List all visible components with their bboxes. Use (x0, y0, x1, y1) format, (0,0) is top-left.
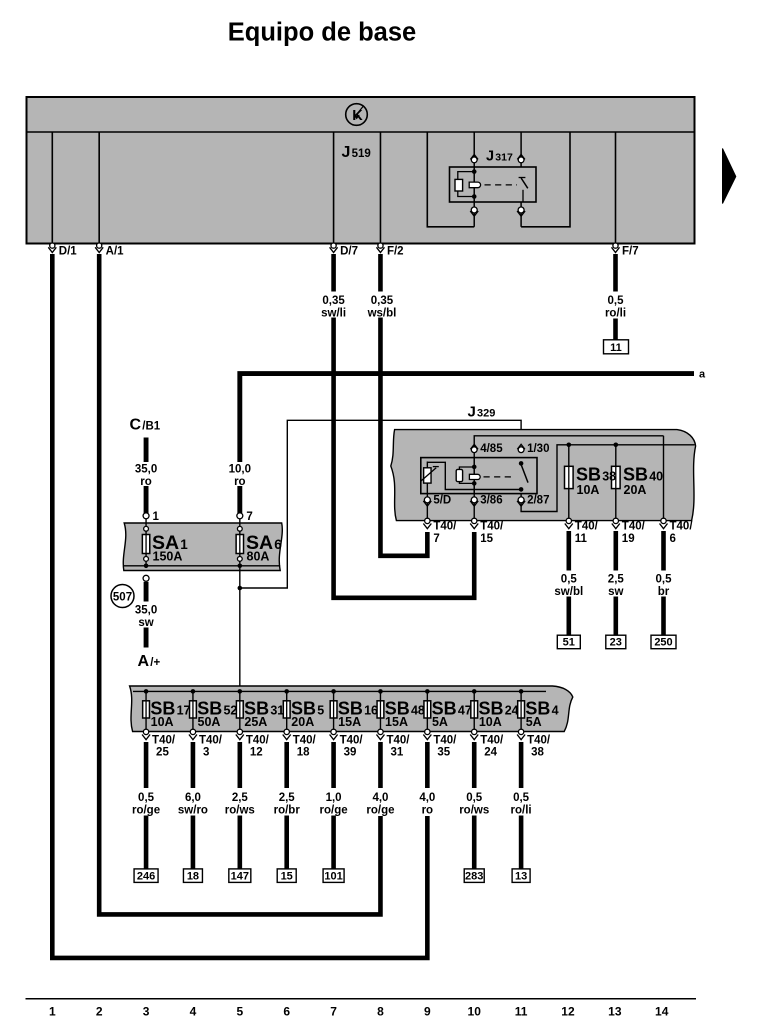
svg-text:15: 15 (480, 533, 493, 545)
svg-text:38: 38 (531, 746, 544, 758)
wire T40/11 lower (566, 597, 571, 636)
terminal arrow T40/19 (613, 518, 618, 523)
wire T40/12 lower (238, 816, 243, 870)
svg-text:0,5: 0,5 (561, 574, 578, 586)
svg-text:2: 2 (96, 1005, 103, 1019)
fuse strip SA box (123, 523, 282, 571)
svg-text:0,35: 0,35 (371, 295, 394, 307)
svg-text:T40/: T40/ (527, 734, 551, 746)
node SB38 tap (567, 443, 572, 448)
J317 outer wiring loop (427, 132, 474, 227)
wire F/2 to T40/7 (380, 318, 427, 556)
svg-text:1: 1 (49, 1005, 56, 1019)
label 507 (circled) (111, 585, 134, 608)
wire A/1 inside box (98, 132, 100, 244)
svg-text:10A: 10A (151, 715, 174, 729)
svg-text:51: 51 (563, 637, 575, 649)
terminal arrow T40/11 (566, 518, 571, 523)
svg-text:T40/: T40/ (480, 521, 504, 533)
wire T40/25 lower (144, 816, 149, 870)
svg-text:T40/: T40/ (386, 734, 410, 746)
fuse SB40 (615, 445, 617, 521)
svg-text:15A: 15A (385, 715, 408, 729)
terminal arrow T40/24 (472, 729, 477, 734)
svg-text:1,0: 1,0 (326, 792, 342, 804)
fuse SB24 (472, 689, 477, 694)
page continuation arrow (723, 149, 736, 204)
J329 terminal 4/85 (471, 447, 477, 453)
svg-text:sw: sw (608, 586, 623, 598)
svg-text:2,5: 2,5 (279, 792, 296, 804)
wire T40/6 upper (661, 531, 666, 571)
terminal arrow T40/6 (661, 518, 666, 523)
svg-text:T40/: T40/ (433, 521, 457, 533)
wire A/+ upper (144, 582, 149, 602)
svg-text:A/1: A/1 (106, 246, 125, 258)
connection box 101 (323, 869, 344, 883)
svg-text:T40/: T40/ (433, 734, 457, 746)
J317 relay box (450, 167, 537, 202)
J329 terminal 3/86 (471, 497, 477, 503)
svg-text:507: 507 (113, 591, 132, 603)
fuse SB38 (568, 445, 570, 521)
connection box 15 (277, 869, 296, 883)
svg-text:19: 19 (622, 533, 635, 545)
connection box 250 (651, 635, 676, 649)
wire A/1 to T40/31 loop (99, 254, 380, 914)
terminal arrow T40/18 (284, 729, 289, 734)
svg-text:F/7: F/7 (622, 246, 639, 258)
wire T40/39 lower (331, 816, 336, 870)
J329 30-rail with fuse taps (521, 445, 694, 512)
terminal arrow A/1 (97, 243, 102, 248)
J317 terminal bottom left (471, 207, 477, 213)
svg-text:0,5: 0,5 (513, 792, 530, 804)
wire 5/D through strip (426, 494, 428, 521)
wire T40/38 upper (519, 742, 524, 788)
svg-text:12: 12 (250, 746, 263, 758)
svg-text:13: 13 (515, 870, 527, 882)
svg-text:a: a (699, 369, 706, 381)
terminal arrow T40/39 (331, 729, 336, 734)
svg-text:31: 31 (390, 746, 403, 758)
svg-text:ro: ro (422, 804, 434, 816)
wire T40/24 upper (472, 742, 477, 788)
wire SA6 to J329 terminal 1/30 (240, 420, 521, 588)
svg-text:25: 25 (156, 746, 169, 758)
svg-text:35,0: 35,0 (135, 605, 157, 617)
svg-text:6: 6 (670, 533, 676, 545)
svg-text:246: 246 (137, 870, 155, 882)
svg-text:7: 7 (433, 533, 439, 545)
wire F/7 inside box (615, 132, 617, 244)
J317 switch (519, 177, 526, 179)
wire T40/35 upper (425, 742, 430, 788)
svg-text:T40/: T40/ (293, 734, 317, 746)
svg-text:283: 283 (465, 870, 483, 882)
wire T40/18 upper (284, 742, 289, 788)
J329 coil winding (459, 467, 474, 469)
fuse SB52 (191, 689, 196, 694)
svg-text:35,0: 35,0 (135, 464, 157, 476)
connection box 246 (134, 869, 158, 883)
svg-text:3: 3 (203, 746, 209, 758)
svg-text:11: 11 (575, 533, 588, 545)
wire D/7 to T40/15 (334, 318, 475, 598)
current track scale line (26, 998, 697, 1000)
svg-text:T40/: T40/ (575, 521, 599, 533)
svg-text:2,5: 2,5 (608, 574, 625, 586)
symbol K (circled) (346, 104, 368, 126)
J329 feed line 4/85 rail (474, 436, 663, 458)
fuse strip SB box (130, 686, 573, 732)
J317 dashed actuator line (485, 184, 518, 186)
fuse SA6 (239, 519, 241, 564)
terminal arrow T40/25 (143, 729, 148, 734)
svg-text:18: 18 (297, 746, 310, 758)
svg-text:1: 1 (153, 511, 160, 523)
svg-text:1/30: 1/30 (527, 443, 549, 455)
svg-text:ro/ge: ro/ge (320, 804, 348, 816)
svg-text:39: 39 (344, 746, 357, 758)
terminal arrow D/1 (50, 243, 55, 248)
wire F/7 upper (613, 254, 618, 292)
fuse SB48 (378, 689, 383, 694)
svg-text:10A: 10A (479, 715, 502, 729)
svg-text:T40/: T40/ (246, 734, 270, 746)
svg-text:ro/ws: ro/ws (459, 804, 489, 816)
svg-text:11: 11 (610, 342, 622, 354)
J329 coil vertical (473, 458, 475, 494)
svg-text:D/1: D/1 (59, 246, 78, 258)
svg-text:10A: 10A (577, 483, 600, 497)
svg-text:sw/ro: sw/ro (178, 804, 208, 816)
svg-text:147: 147 (231, 870, 249, 882)
terminal arrow T40/35 (425, 729, 430, 734)
connection box 11 (604, 340, 629, 354)
connection box 23 (606, 635, 626, 649)
J329 switch (519, 461, 524, 466)
fuse SB16 (331, 689, 336, 694)
J329 terminal 2/87 (518, 497, 524, 503)
svg-text:12: 12 (561, 1005, 575, 1019)
wire A/+ lower (144, 628, 149, 648)
svg-text:ro/ws: ro/ws (225, 804, 255, 816)
svg-text:5/D: 5/D (433, 495, 451, 507)
terminal arrow T40/31 (378, 729, 383, 734)
svg-text:14: 14 (655, 1005, 669, 1019)
fuse SB47 (425, 689, 430, 694)
SA bus bar (124, 565, 280, 567)
svg-text:T40/: T40/ (340, 734, 364, 746)
svg-text:35: 35 (437, 746, 450, 758)
J329 dashed actuator line (484, 476, 516, 478)
svg-text:4,0: 4,0 (419, 792, 435, 804)
wire T40/19 upper (613, 531, 618, 571)
J329 armature plug (469, 474, 480, 479)
svg-text:250: 250 (654, 637, 672, 649)
svg-text:6,0: 6,0 (185, 792, 201, 804)
wire rail a (240, 374, 694, 462)
wire D/7 inside box (333, 132, 335, 244)
wire T40/31 upper (378, 742, 383, 788)
svg-text:50A: 50A (198, 715, 221, 729)
svg-text:0,5: 0,5 (466, 792, 483, 804)
svg-text:0,5: 0,5 (656, 574, 673, 586)
svg-text:T40/: T40/ (152, 734, 176, 746)
wire SA6 output to SB strip (239, 568, 241, 691)
terminal arrow T40/3 (190, 729, 195, 734)
svg-text:ro/ge: ro/ge (366, 804, 394, 816)
wire C upper (144, 438, 149, 463)
terminal 7 of SA6 (237, 513, 243, 519)
J329 terminal 1/30 (518, 447, 524, 453)
terminal arrow T40/38 (518, 729, 523, 734)
wire D/7 upper (331, 254, 336, 292)
svg-text:18: 18 (187, 870, 199, 882)
fuse SB31 (238, 689, 243, 694)
svg-text:5: 5 (236, 1005, 243, 1019)
svg-text:25A: 25A (244, 715, 267, 729)
terminal arrow T40/12 (237, 729, 242, 734)
svg-text:3/86: 3/86 (480, 495, 502, 507)
svg-text:11: 11 (515, 1005, 528, 1019)
terminal arrow F/7 (613, 243, 618, 248)
wire T40/18 lower (284, 816, 289, 870)
wire T40/3 lower (191, 816, 196, 870)
svg-text:sw/bl: sw/bl (554, 586, 583, 598)
connection box 283 (464, 869, 484, 883)
wire T40/6 through strip (663, 436, 665, 521)
J317 terminal top left (471, 157, 477, 163)
terminal arrow F/2 (378, 243, 383, 248)
fuse SB4 (519, 689, 524, 694)
wire T40/3 upper (191, 742, 196, 788)
node SA6 branch (238, 586, 243, 591)
J329 resistor element (426, 462, 428, 494)
svg-text:J317: J317 (486, 149, 513, 165)
connection box 51 (557, 635, 580, 649)
J317 coil winding (455, 179, 463, 191)
svg-text:101: 101 (324, 870, 342, 882)
terminal arrow T40/7 (425, 518, 430, 523)
svg-text:T40/: T40/ (199, 734, 223, 746)
svg-text:4,0: 4,0 (372, 792, 388, 804)
svg-text:0,35: 0,35 (322, 295, 345, 307)
svg-text:10,0: 10,0 (229, 464, 251, 476)
SB bus bar (133, 690, 546, 692)
svg-text:ro/ge: ro/ge (132, 804, 160, 816)
svg-text:20A: 20A (624, 483, 647, 497)
J317 terminal bottom right (518, 207, 524, 213)
svg-text:Equipo de base: Equipo de base (228, 19, 416, 47)
relay plate J329 box (391, 430, 696, 521)
wire D/1 to T40/35 loop (52, 254, 427, 958)
svg-text:D/7: D/7 (340, 246, 358, 258)
J329 terminal 5/D (424, 497, 430, 503)
svg-text:5A: 5A (526, 715, 542, 729)
svg-text:80A: 80A (247, 550, 270, 564)
svg-text:24: 24 (484, 746, 497, 758)
wire T40/39 upper (331, 742, 336, 788)
wire 3/86 through strip (473, 494, 475, 521)
connection box 147 (229, 869, 251, 883)
fuse SA1 (145, 519, 147, 564)
J317 armature plug (469, 182, 480, 188)
svg-text:2/87: 2/87 (527, 495, 549, 507)
svg-text:13: 13 (608, 1005, 622, 1019)
svg-text:ro/br: ro/br (274, 804, 301, 816)
svg-text:sw: sw (138, 617, 153, 629)
wire T40/19 lower (613, 597, 618, 636)
J317 coil path (473, 167, 475, 202)
terminal 1 of SA1 (143, 513, 149, 519)
wire C lower (144, 486, 149, 513)
svg-text:ro/li: ro/li (605, 307, 626, 319)
fuse SB5 (284, 689, 289, 694)
svg-text:5A: 5A (432, 715, 448, 729)
svg-text:F/2: F/2 (387, 246, 404, 258)
wire T40/11 upper (566, 531, 571, 571)
wire F/7 lower (613, 319, 618, 341)
wire T40/12 upper (238, 742, 243, 788)
svg-text:7: 7 (246, 511, 252, 523)
wire T40/38 lower (519, 816, 524, 870)
svg-text:7: 7 (330, 1005, 337, 1019)
svg-text:8: 8 (377, 1005, 384, 1019)
connection box 18 (183, 869, 202, 883)
svg-text:9: 9 (424, 1005, 431, 1019)
node SB40 tap (614, 443, 619, 448)
control unit box J519 (27, 97, 695, 244)
svg-text:4/85: 4/85 (480, 443, 503, 455)
wire SA6 input lower (237, 486, 242, 513)
svg-text:br: br (658, 586, 670, 598)
J317 terminal stubs (473, 132, 475, 167)
fuse SB17 (144, 689, 149, 694)
svg-text:15A: 15A (338, 715, 361, 729)
svg-text:23: 23 (610, 637, 622, 649)
terminal arrow T40/15 (472, 518, 477, 523)
svg-text:ro/li: ro/li (511, 804, 532, 816)
svg-text:10: 10 (468, 1005, 482, 1019)
svg-text:20A: 20A (291, 715, 314, 729)
svg-text:T40/: T40/ (622, 521, 646, 533)
wire T40/24 lower (472, 816, 477, 870)
terminal below SA1 (143, 575, 149, 581)
svg-text:6: 6 (283, 1005, 290, 1019)
svg-text:3: 3 (143, 1005, 150, 1019)
svg-text:T40/: T40/ (480, 734, 504, 746)
svg-text:T40/: T40/ (670, 521, 694, 533)
svg-text:2,5: 2,5 (232, 792, 249, 804)
wire D/1 inside box (51, 132, 53, 244)
wire T40/6 lower (661, 597, 666, 636)
wire F/2 inside box (379, 132, 381, 244)
svg-text:0,5: 0,5 (138, 792, 155, 804)
svg-text:0,5: 0,5 (608, 295, 625, 307)
wire F/2 upper (378, 254, 383, 292)
svg-text:4: 4 (190, 1005, 197, 1019)
wire T40/25 upper (144, 742, 149, 788)
connection box 13 (512, 869, 530, 883)
svg-text:150A: 150A (153, 550, 183, 564)
svg-text:15: 15 (281, 870, 293, 882)
J329 relay box (421, 458, 537, 494)
J317 terminal top right (518, 157, 524, 163)
terminal arrow D/7 (331, 243, 336, 248)
